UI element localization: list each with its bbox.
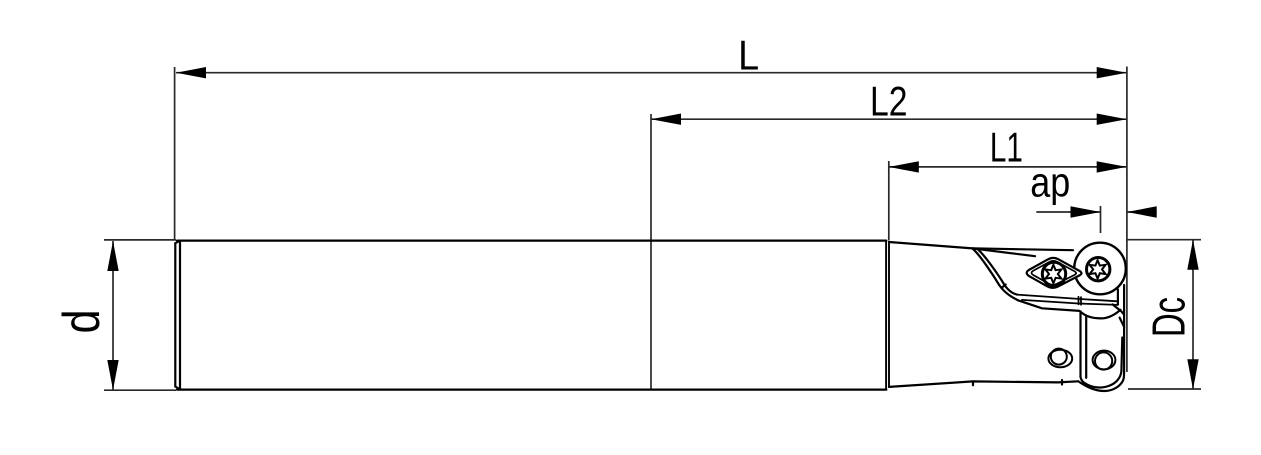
svg-text:Dc: Dc	[1143, 297, 1195, 337]
svg-text:ap: ap	[1030, 159, 1070, 206]
svg-text:d: d	[53, 310, 111, 334]
svg-text:L1: L1	[990, 124, 1023, 171]
svg-text:L: L	[738, 31, 759, 78]
svg-text:L2: L2	[870, 78, 908, 125]
